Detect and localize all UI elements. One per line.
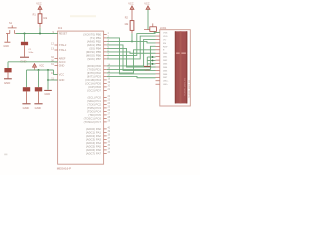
svg-text:XTAL2: XTAL2	[59, 43, 67, 47]
wire from S1 left terminal down to GND	[6, 34, 8, 42]
IC1 right-side pin stubs	[104, 34, 107, 153]
wire VCC net riser to VCC pin	[54, 70, 58, 74]
wire net IC pin PB1 to LCD DB7	[107, 38, 156, 74]
LCD display darker right edge	[186, 31, 187, 103]
contrast box left pin	[144, 29, 150, 31]
faint artifact streak top-middle	[70, 15, 96, 17]
wire net IC pin PD1 to LCD DB2	[107, 46, 156, 69]
svg-text:GND: GND	[145, 69, 151, 72]
IC1 left-side pin names and pin numbers	[51, 30, 68, 82]
switch S1 (reset pushbutton)	[6, 25, 17, 33]
wire net IC pin PD2 to LCD DB1	[107, 50, 156, 73]
capacitor C3 (decoupling)	[26, 70, 28, 87]
wire GND net vertical at LCD	[146, 57, 148, 66]
capacitor C2 (AREF filter)	[7, 62, 9, 68]
svg-text:MEGA16-P: MEGA16-P	[57, 167, 71, 171]
wire AVCC net (long horizontal)	[8, 61, 58, 63]
wire net IC pin PB6 to LCD VO	[107, 34, 156, 56]
svg-text:TUXGR_16X2_R2: TUXGR_16X2_R2	[189, 79, 191, 98]
resistor R2 (pull-up)	[131, 10, 133, 21]
LCD module LCD1 outline	[160, 30, 191, 106]
svg-text:IC1: IC1	[58, 26, 63, 30]
node junction on reset net at R1	[39, 33, 41, 35]
svg-text:VCC: VCC	[128, 1, 134, 5]
svg-text:RS: RS	[163, 43, 167, 45]
svg-text:VCC: VCC	[39, 65, 44, 67]
svg-text:TUXGR_16X2_R2: TUXGR_16X2_R2	[185, 77, 187, 96]
LCD display area (lower part)	[175, 54, 187, 103]
svg-text:(SCK) PB7: (SCK) PB7	[87, 57, 101, 61]
svg-text:AVCC: AVCC	[59, 60, 66, 64]
LCD1 left pin stubs and labels	[156, 33, 160, 85]
svg-text:GND: GND	[35, 106, 41, 110]
svg-text:LED-: LED-	[163, 84, 168, 86]
svg-text:XTAL1: XTAL1	[59, 48, 67, 52]
capacitor C1 (reset debounce)	[24, 34, 26, 42]
ground chain from VCC wire junction	[47, 70, 49, 90]
svg-text:VCC: VCC	[144, 1, 150, 5]
IC1 right-side pin names and pin numbers	[83, 32, 110, 155]
faint mark bottom-left	[4, 154, 7, 156]
capacitor C4 (decoupling)	[38, 70, 40, 87]
svg-text:GND: GND	[3, 45, 9, 48]
svg-text:LED+: LED+	[163, 81, 169, 83]
ground below S1	[4, 41, 10, 43]
svg-text:(OC2) PD7: (OC2) PD7	[87, 88, 101, 92]
svg-text:RESET: RESET	[59, 31, 68, 35]
IC IC1 (microcontroller MEGA16-P) body	[58, 31, 104, 164]
wire net IC pin PD0 to LCD DB0	[107, 39, 156, 65]
wire net IC pin PD3 to LCD DB3	[107, 76, 156, 77]
ground below C1	[20, 56, 29, 58]
ground LCD cluster	[144, 65, 151, 67]
svg-text:VSS: VSS	[163, 33, 168, 35]
ground below C2	[4, 78, 12, 80]
wire net IC pin PB3 to LCD DB6	[107, 45, 156, 71]
node junction VCC/GND chain	[47, 69, 49, 71]
node junction LCD VSS	[152, 56, 154, 58]
wire GND pin row	[48, 79, 58, 81]
node junction LCD LED-	[152, 63, 154, 65]
svg-text:GND: GND	[59, 63, 65, 67]
node junction on reset net at C1	[24, 33, 26, 35]
ground below C3	[22, 103, 30, 105]
node junction LCD R/W	[152, 59, 154, 61]
wire net IC pin PB7 to LCD RS	[107, 36, 156, 59]
wire LCD R/W pin to GND	[147, 59, 155, 61]
node junction R2/net	[131, 40, 133, 42]
svg-text:LCD1: LCD1	[160, 27, 167, 30]
wire R1 to reset net	[39, 28, 41, 34]
wire LCD VSS pin to GND	[147, 56, 155, 58]
svg-text:VCC: VCC	[36, 1, 42, 5]
wire R2 to net	[131, 33, 133, 41]
svg-text:VCC: VCC	[59, 72, 65, 76]
svg-text:AREF: AREF	[59, 56, 66, 60]
svg-text:VO: VO	[163, 39, 166, 41]
ground below C4	[34, 103, 42, 105]
svg-text:(TOSC2) PC7: (TOSC2) PC7	[84, 120, 102, 124]
svg-text:GND: GND	[59, 78, 65, 82]
trimmer/contrast network box	[150, 27, 157, 32]
wire box to LCD pin 1	[154, 31, 160, 32]
wire net IC pin PB5 to LCD DB4	[107, 52, 156, 53]
resistor R1 (reset pull-up)	[39, 10, 41, 14]
wire VCC net horizontal	[27, 69, 54, 71]
LCD display darker left edge	[175, 31, 176, 103]
svg-text:GND: GND	[4, 81, 10, 85]
wire LCD LED- pin to GND	[147, 63, 155, 65]
LCD display area (upper part)	[175, 31, 187, 52]
svg-text:(ADC7) PA7: (ADC7) PA7	[86, 151, 102, 155]
node junction VCC/C3	[38, 69, 40, 71]
svg-text:100n: 100n	[28, 52, 34, 54]
svg-text:GND: GND	[23, 106, 29, 110]
svg-text:VDD: VDD	[163, 36, 168, 38]
wire reset net (S1 to IC RESET)	[16, 33, 58, 35]
supply VCC (mid, feeds IC VCC pins)	[33, 64, 37, 68]
wire net IC pin PB4 to LCD DB5	[107, 48, 156, 67]
LCD display seam (light)	[175, 53, 187, 54]
wire net R2 pull-up to LCD E	[107, 41, 156, 43]
svg-text:GND: GND	[44, 92, 50, 96]
LCD display lighter middle strip	[180, 31, 182, 103]
wire VCC to LCD supply	[147, 10, 149, 30]
IC1 left-side pin stubs	[55, 34, 58, 81]
